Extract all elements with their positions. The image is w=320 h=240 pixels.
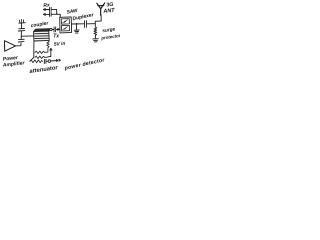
wire PA output [16,43,22,46]
SAW duplexer U2 [60,17,72,33]
wire node A to coupler [21,35,33,37]
svg-text:ANT: ANT [102,8,116,15]
label Tx [53,34,59,40]
wire stub to ground [76,24,78,30]
label SAW Duplexer [66,8,95,22]
label coupler [30,20,49,29]
ground (surge) [93,39,99,42]
wire Rx line 2 [43,13,60,17]
wire antenna drop [95,15,101,24]
Rx filter F1 [61,19,69,25]
wire arrow Tx [56,29,59,31]
svg-text:attenuator: attenuator [29,65,59,75]
svg-text:coupler: coupler [30,20,49,29]
node C junction [76,23,78,25]
wire duplexer common port [72,23,84,25]
capacitor C6 [84,21,86,28]
label Rx [43,2,50,9]
capacitor C3 [52,27,56,32]
power amplifier U1 [5,41,16,52]
label power detector [63,57,106,72]
capacitor C1 [18,39,24,42]
node Rx junction [56,13,57,14]
Tx filter F2 [61,25,69,31]
resistor R4 [30,60,43,63]
connector loop J2 [47,60,51,63]
label Power Amplifier [2,55,26,69]
capacitor C2 [18,23,25,36]
svg-text:5V in: 5V in [54,41,66,48]
antenna ANT [97,3,105,15]
label attenuator [29,65,59,75]
svg-text:power detector: power detector [63,57,106,72]
label ANT [102,8,116,15]
connector loop J1 [49,28,52,30]
resistor R2 [35,56,48,58]
capacitor C7 [44,59,46,63]
wire C6 to antenna node [87,23,95,25]
svg-text:Tx: Tx [53,34,59,40]
wire arrow to power detector [51,59,61,61]
ground (stub) [74,30,79,33]
ground (flipped, above C2) [19,19,26,23]
wire C1 to node A [20,36,22,39]
resistor R1 [35,51,48,53]
wire Rx line 1 [43,9,56,14]
capacitor C4 [50,8,52,12]
label 3G [106,2,114,9]
resistor R3 (vertical, coupled port) [47,41,49,53]
inductor L1 (surge) [94,24,97,39]
coupler CP1 [34,29,51,41]
svg-text:Amplifier: Amplifier [2,60,26,68]
wire 5V arrow [48,48,52,57]
wire coupler left rail [30,41,34,61]
capacitor C5 [50,12,52,16]
label surge protector [100,26,121,40]
label 5V in [54,41,66,48]
